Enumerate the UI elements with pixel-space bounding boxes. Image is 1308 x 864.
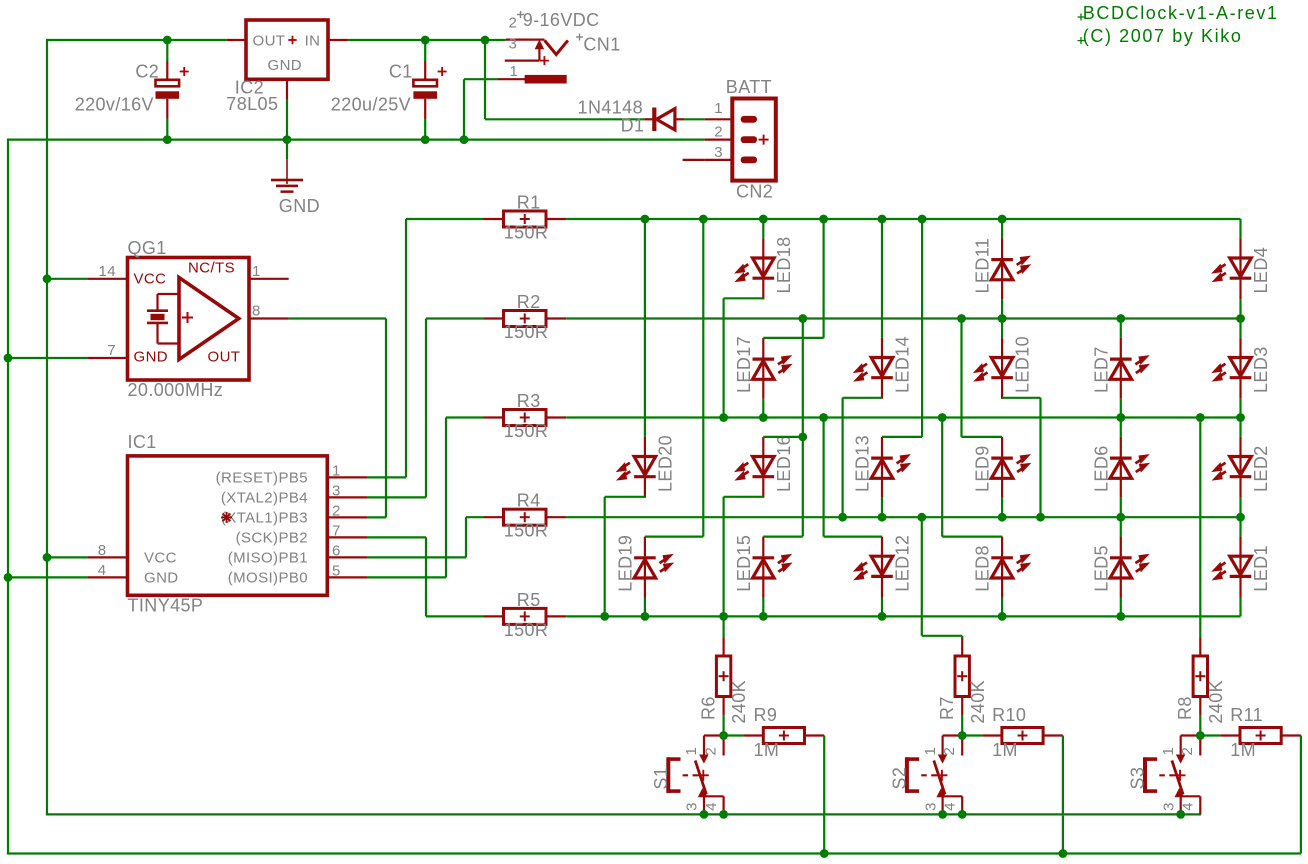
svg-text:GND: GND: [134, 349, 169, 366]
svg-text:LED9: LED9: [973, 445, 993, 492]
svg-text:240K: 240K: [729, 680, 749, 724]
svg-text:2: 2: [702, 747, 719, 756]
svg-text:LED17: LED17: [734, 336, 754, 393]
svg-text:S2: S2: [890, 767, 910, 790]
svg-text:(XTAL1)PB3: (XTAL1)PB3: [221, 509, 308, 526]
svg-text:LED20: LED20: [655, 435, 675, 492]
svg-text:1: 1: [510, 63, 519, 80]
svg-text:R5: R5: [517, 590, 541, 610]
svg-text:2: 2: [332, 502, 341, 519]
svg-text:14: 14: [99, 263, 117, 280]
svg-text:C2: C2: [135, 61, 159, 81]
svg-text:8: 8: [252, 303, 261, 320]
svg-text:LED13: LED13: [853, 435, 873, 492]
svg-text:QG1: QG1: [128, 238, 167, 258]
svg-text:5: 5: [332, 562, 341, 579]
svg-text:(C) 2007 by Kiko: (C) 2007 by Kiko: [1083, 26, 1243, 46]
svg-text:150R: 150R: [504, 521, 549, 541]
svg-text:3: 3: [922, 802, 939, 811]
svg-text:9-16VDC: 9-16VDC: [523, 10, 600, 30]
svg-text:R9: R9: [754, 705, 778, 725]
svg-text:LED19: LED19: [615, 535, 635, 592]
svg-text:3: 3: [332, 482, 341, 499]
svg-text:LED16: LED16: [774, 435, 794, 492]
svg-text:7: 7: [332, 522, 341, 539]
svg-text:R4: R4: [517, 491, 541, 511]
svg-text:R3: R3: [517, 391, 541, 411]
svg-text:S3: S3: [1128, 767, 1148, 790]
svg-text:GND: GND: [144, 570, 179, 587]
svg-text:LED1: LED1: [1251, 545, 1271, 592]
svg-text:2: 2: [509, 15, 518, 32]
svg-text:LED2: LED2: [1251, 445, 1271, 492]
svg-text:S1: S1: [651, 767, 671, 790]
svg-text:IC1: IC1: [128, 432, 157, 452]
svg-text:TINY45P: TINY45P: [128, 596, 204, 616]
svg-text:GND: GND: [268, 57, 303, 74]
svg-text:VCC: VCC: [134, 271, 167, 288]
svg-text:2: 2: [941, 747, 958, 756]
svg-text:IN: IN: [305, 33, 321, 50]
svg-text:LED5: LED5: [1091, 545, 1111, 592]
svg-text:LED10: LED10: [1013, 336, 1033, 393]
svg-text:R1: R1: [517, 193, 541, 213]
svg-text:VCC: VCC: [144, 550, 177, 567]
svg-text:OUT: OUT: [208, 349, 241, 366]
svg-text:4: 4: [703, 802, 720, 811]
svg-text:240K: 240K: [1206, 680, 1226, 724]
svg-text:20.000MHz: 20.000MHz: [128, 380, 224, 400]
svg-text:220u/25V: 220u/25V: [331, 95, 411, 115]
svg-text:LED11: LED11: [973, 238, 993, 294]
svg-text:150R: 150R: [504, 223, 549, 243]
svg-text:4: 4: [98, 562, 107, 579]
svg-text:(XTAL2)PB4: (XTAL2)PB4: [221, 489, 308, 506]
svg-text:LED8: LED8: [973, 545, 993, 592]
svg-text:(MISO)PB1: (MISO)PB1: [228, 549, 308, 566]
svg-text:CN2: CN2: [736, 182, 773, 202]
svg-text:1: 1: [252, 263, 261, 280]
svg-text:1: 1: [332, 462, 341, 479]
svg-text:1M: 1M: [1230, 740, 1256, 760]
svg-text:2: 2: [714, 124, 723, 141]
svg-text:LED4: LED4: [1251, 247, 1271, 294]
svg-text:150R: 150R: [504, 421, 549, 441]
svg-text:7: 7: [107, 342, 116, 359]
svg-text:R7: R7: [937, 696, 957, 720]
svg-text:1N4148: 1N4148: [578, 98, 643, 118]
svg-text:1: 1: [1160, 747, 1177, 756]
svg-text:LED15: LED15: [734, 535, 754, 592]
svg-text:(RESET)PB5: (RESET)PB5: [216, 469, 308, 486]
svg-text:4: 4: [942, 802, 959, 811]
svg-text:3: 3: [684, 802, 701, 811]
svg-text:BCDClock-v1-A-rev1: BCDClock-v1-A-rev1: [1083, 3, 1279, 23]
svg-text:LED14: LED14: [893, 336, 913, 393]
svg-text:6: 6: [332, 542, 341, 559]
svg-text:R2: R2: [517, 292, 541, 312]
svg-text:D1: D1: [621, 116, 645, 136]
svg-text:BATT: BATT: [726, 77, 772, 97]
svg-text:2: 2: [1179, 747, 1196, 756]
svg-text:R6: R6: [698, 696, 718, 720]
svg-text:1: 1: [683, 747, 700, 756]
svg-text:R8: R8: [1175, 696, 1195, 720]
svg-text:LED12: LED12: [893, 535, 913, 592]
svg-text:CN1: CN1: [583, 35, 620, 55]
svg-text:OUT: OUT: [253, 33, 286, 50]
svg-text:8: 8: [98, 542, 107, 559]
svg-text:3: 3: [1160, 802, 1177, 811]
svg-text:(MOSI)PB0: (MOSI)PB0: [228, 569, 308, 586]
svg-text:LED18: LED18: [774, 236, 794, 293]
svg-text:3: 3: [714, 144, 723, 161]
svg-text:4: 4: [1180, 802, 1197, 811]
svg-text:150R: 150R: [504, 620, 549, 640]
svg-text:C1: C1: [389, 61, 413, 81]
svg-text:R10: R10: [992, 705, 1026, 725]
svg-text:1M: 1M: [754, 740, 780, 760]
svg-text:3: 3: [509, 36, 518, 53]
svg-text:150R: 150R: [504, 322, 549, 342]
svg-text:R11: R11: [1230, 705, 1263, 725]
svg-text:(SCK)PB2: (SCK)PB2: [236, 529, 308, 546]
svg-text:78L05: 78L05: [226, 94, 278, 114]
svg-text:GND: GND: [279, 196, 320, 216]
svg-text:LED3: LED3: [1251, 346, 1271, 393]
svg-text:220v/16V: 220v/16V: [75, 95, 154, 115]
svg-text:NC/TS: NC/TS: [188, 260, 235, 277]
svg-text:1: 1: [922, 747, 939, 756]
svg-text:1M: 1M: [992, 740, 1018, 760]
svg-text:240K: 240K: [968, 680, 988, 724]
svg-text:LED7: LED7: [1091, 346, 1111, 393]
svg-text:LED6: LED6: [1091, 445, 1111, 492]
svg-text:1: 1: [714, 100, 723, 117]
